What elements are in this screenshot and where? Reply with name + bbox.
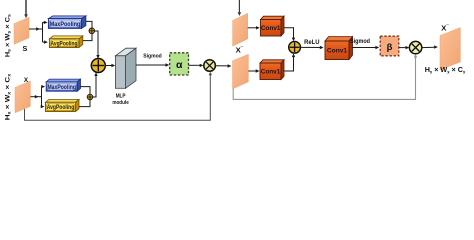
wire alpha to multiply [189,64,204,67]
svg-text:~: ~ [240,45,243,51]
svg-text:α: α [176,59,183,71]
node S feature map [14,17,29,53]
svg-text:Hx × Wx × Cx: Hx × Wx × Cx [4,73,11,120]
wire input X from top (right section) [238,0,242,16]
wire AvgPooling X to sum node [79,100,90,107]
node multiply circle (spatial attention) [409,41,421,53]
block Conv1 (right) [325,37,353,60]
svg-text:module: module [112,100,129,106]
wire input S from top [24,0,28,18]
block AvgPooling (X branch) [46,100,80,112]
wire AvgPooling to sum node [83,34,92,41]
wire S-branch sum down to main sum [95,31,100,59]
svg-text:Hs × Ws × Cs: Hs × Ws × Cs [4,13,11,57]
block AvgPooling (S branch) [49,36,82,48]
wire X-branch sum up to main sum [93,72,98,97]
svg-text:Sigmod: Sigmod [143,53,162,59]
svg-text:S: S [23,44,28,53]
node sum circle (spatial) [289,41,301,53]
wire beta to multiply right [399,46,410,49]
block beta [380,36,399,56]
svg-text:MaxPooling: MaxPooling [50,21,81,28]
wire S to pooling split [29,21,48,44]
node X feature map (left) [15,77,30,113]
block Conv1 (bottom) [260,60,284,80]
node X-tilde feature map [233,45,249,89]
wire MaxPooling X to sum node [81,87,91,94]
node X-out feature map [440,23,460,70]
block MaxPooling (X branch) [46,79,80,91]
wire multiply to output map [422,45,438,48]
wire X top to Conv1 [248,26,260,29]
wire feedback X to multiply (bottom rail) [25,72,213,121]
wire feedback X-tilde to multiply right (bottom rail) [233,54,417,100]
block MLP module [112,48,136,106]
svg-text:ReLU: ReLU [304,39,320,46]
wire Conv1 top to sum [284,28,295,41]
wire Conv1 bottom to sum [284,54,295,72]
wire MaxPooling to sum node [86,21,92,27]
svg-text:MaxPooling: MaxPooling [47,84,76,91]
wire Conv1 right to beta [353,46,380,49]
svg-text:AvgPooling: AvgPooling [47,104,75,111]
node main sum circle [91,59,105,73]
svg-text:~: ~ [446,23,449,29]
node multiply circle (channel attention) [204,60,216,72]
node X feature map (right top) [233,13,248,46]
block MaxPooling (S branch) [48,16,86,29]
node small sum circle (X branch) [87,94,93,100]
node small sum circle (S branch) [89,28,95,34]
svg-text:Conv1: Conv1 [261,25,281,32]
svg-text:MLP: MLP [116,94,126,100]
wire main sum to MLP [105,64,115,67]
wire MLP to alpha [136,63,169,66]
svg-text:Conv1: Conv1 [327,48,347,55]
svg-text:β: β [387,42,393,53]
svg-text:AvgPooling: AvgPooling [51,40,78,47]
svg-text:Sigmod: Sigmod [350,38,370,45]
wire X to pooling split [30,85,45,108]
wire sum to Conv1 right [301,46,324,49]
block Conv1 (top) [261,16,285,36]
wire multiply to X-tilde map [215,64,231,67]
wire X-tilde to Conv1 bottom [248,69,259,72]
block alpha [170,53,189,75]
svg-text:Hx × Wx × Cx: Hx × Wx × Cx [425,65,466,74]
svg-text:Conv1: Conv1 [261,69,281,76]
